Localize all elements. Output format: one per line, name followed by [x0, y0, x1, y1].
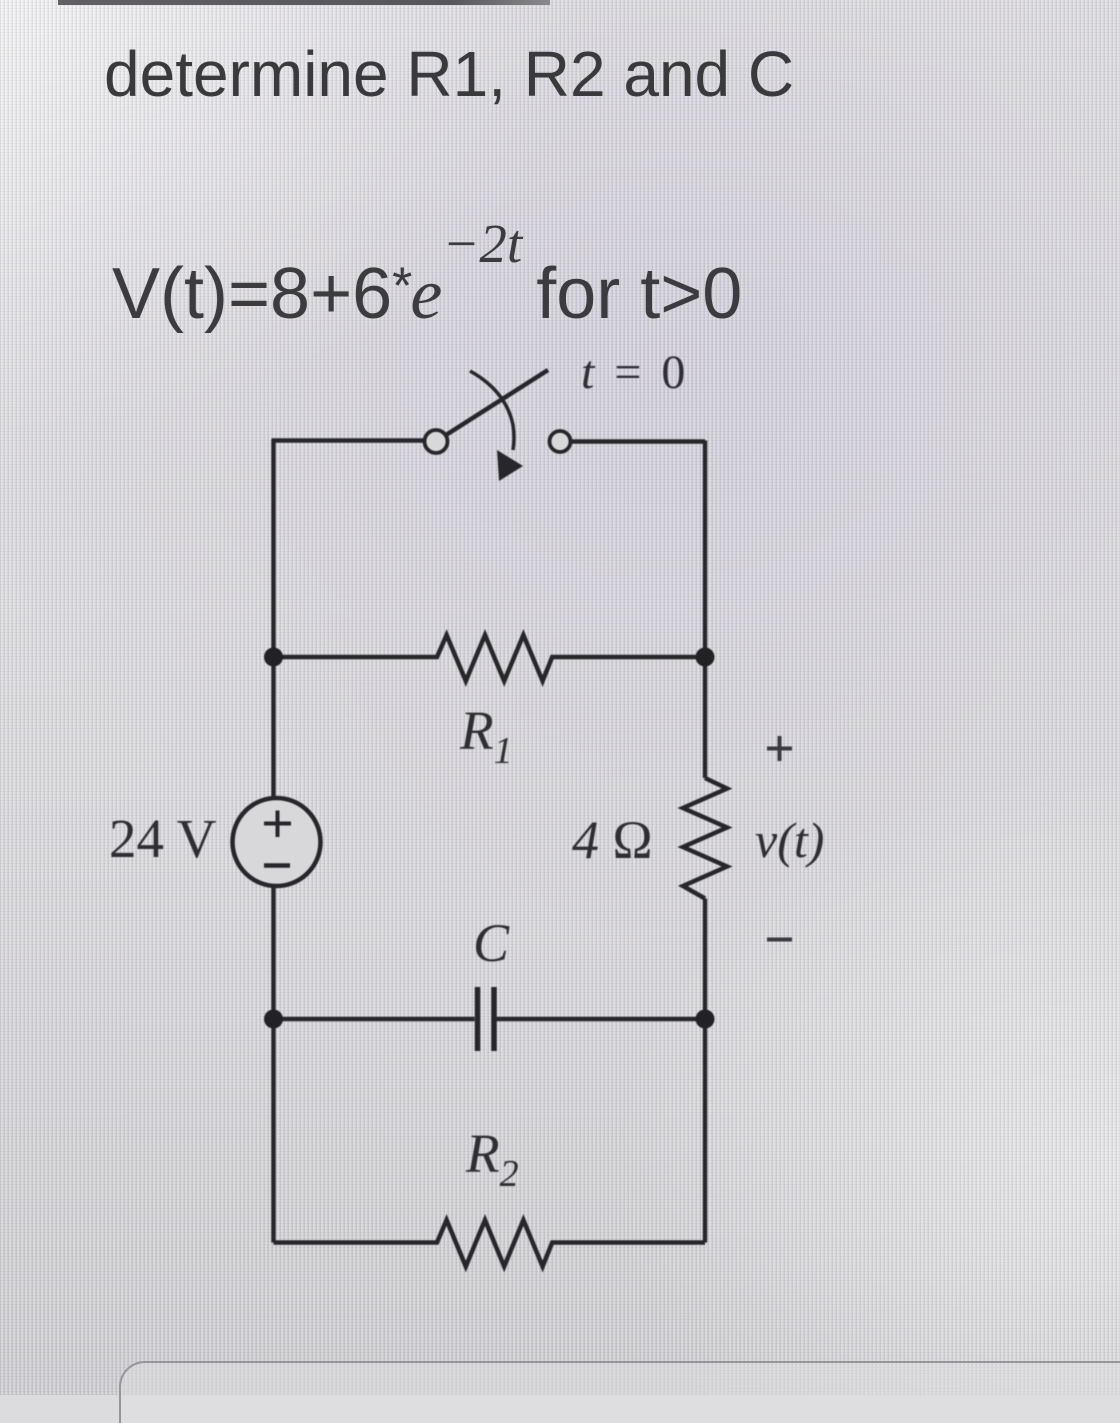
wire: left vertical rail: [271, 440, 275, 1243]
switch SW1: [425, 370, 571, 481]
switch arrowhead: [497, 450, 523, 481]
wire: capacitor row left: [274, 1017, 475, 1021]
svg-text:t = 0: t = 0: [581, 346, 689, 399]
wire: top-left segment to switch: [272, 438, 425, 442]
wire: top-right segment from switch to right rail: [571, 439, 705, 443]
wire: capacitor row right: [497, 1017, 706, 1021]
node C-right: junction dot right capacitor row: [696, 1010, 715, 1029]
polarity plus for v(t): [767, 736, 792, 761]
wire: right vertical rail upper: [703, 441, 707, 779]
switch left contact: [425, 430, 448, 453]
switch right contact: [550, 431, 571, 452]
svg-text:v(t): v(t): [755, 812, 824, 868]
polarity minus for v(t): [767, 938, 792, 942]
svg-text:R2: R2: [465, 1123, 519, 1195]
voltage source 24V circle: [233, 798, 321, 886]
svg-text:4 Ω: 4 Ω: [572, 810, 653, 870]
resistor 4ohm zigzag: [683, 778, 727, 899]
top dark bar: [58, 0, 550, 5]
svg-text:C: C: [473, 913, 510, 973]
svg-text:24 V: 24 V: [109, 808, 217, 869]
capacitor C plates: [478, 987, 495, 1051]
node C-left: junction dot left capacitor row: [264, 1010, 283, 1029]
svg-text:R1: R1: [459, 700, 513, 772]
title text: [104, 39, 794, 109]
switch motion arrow arc: [470, 371, 514, 450]
node B: junction dot right R1 row: [696, 648, 715, 667]
node A: junction dot left R1 row: [264, 648, 283, 667]
resistor R1 with middle wire: [274, 635, 706, 681]
resistor R2 with bottom wire: [274, 1220, 706, 1267]
equation V(t): [112, 216, 742, 330]
wire: right vertical rail lower: [703, 899, 707, 1243]
bottom card panel edge: [119, 1361, 1120, 1423]
switch blade: [446, 370, 548, 435]
